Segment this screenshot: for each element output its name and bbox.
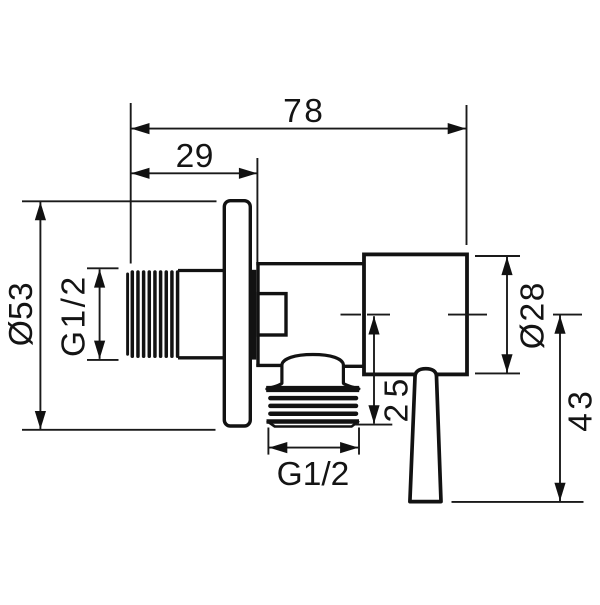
handle lever	[410, 369, 441, 502]
svg-text:29: 29	[176, 138, 214, 175]
svg-text:25: 25	[379, 372, 416, 422]
svg-text:43: 43	[563, 388, 600, 432]
bottom outlet thread bottom band	[267, 419, 360, 424]
dimension 78	[131, 103, 467, 264]
bottom outlet bottom edge bevels	[267, 421, 359, 427]
svg-text:Ø28: Ø28	[514, 281, 551, 349]
body bottom ledge left	[256, 364, 282, 367]
square boss on body	[258, 294, 286, 335]
svg-text:Ø53: Ø53	[3, 282, 40, 346]
body top edge	[256, 262, 366, 265]
dimension 25	[355, 316, 392, 424]
dimension 43	[452, 316, 584, 502]
dimension D28	[475, 256, 520, 373]
bottom outlet thread G1/2 ridges	[270, 398, 356, 414]
body left edge	[256, 262, 259, 367]
neck between flange and body	[249, 270, 260, 360]
dimension 29	[131, 158, 257, 262]
wall flange (rosette)	[224, 201, 250, 426]
left inlet pipe end cap	[126, 274, 129, 354]
svg-text:78: 78	[283, 93, 325, 130]
cartridge housing cylinder	[364, 254, 467, 374]
left inlet thread G1/2 ridges	[132, 272, 177, 356]
valve body fill	[256, 262, 365, 367]
dimension G1/2 bottom	[268, 428, 359, 455]
dimension D53	[22, 201, 217, 429]
outlet dome and skirt	[267, 355, 359, 389]
svg-text:G1/2: G1/2	[277, 456, 350, 493]
outlet skirt base thick edge	[266, 386, 359, 392]
body bottom ledge right	[343, 365, 366, 368]
left pipe smooth section	[178, 269, 252, 272]
centerline	[341, 314, 583, 316]
dimension G1/2 left	[87, 268, 119, 360]
svg-text:G1/2: G1/2	[56, 274, 93, 357]
